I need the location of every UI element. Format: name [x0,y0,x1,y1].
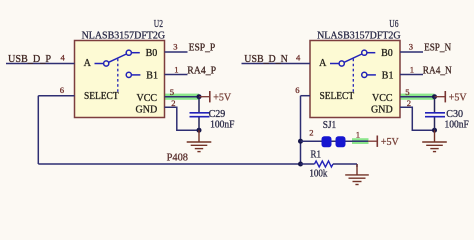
svg-text:100k: 100k [309,168,327,179]
svg-text:U6: U6 [389,19,398,30]
svg-text:ESP_P: ESP_P [189,42,216,54]
svg-text:P408: P408 [167,152,189,164]
svg-text:C30: C30 [446,109,463,120]
svg-text:U2: U2 [154,19,163,30]
svg-text:R1: R1 [311,150,322,161]
svg-text:RA4_P: RA4_P [187,64,216,76]
svg-text:SJ1: SJ1 [323,120,337,131]
svg-text:+5V: +5V [381,137,400,148]
svg-text:ESP_N: ESP_N [424,42,451,54]
svg-text:100nF: 100nF [210,119,235,130]
svg-text:100nF: 100nF [445,119,470,130]
svg-text:1: 1 [356,130,360,140]
svg-text:C29: C29 [209,109,226,120]
svg-text:2: 2 [309,128,313,138]
svg-text:USB_D_N: USB_D_N [244,53,288,65]
svg-text:RA4_N: RA4_N [423,64,452,76]
svg-text:USB_D_P: USB_D_P [8,53,51,65]
